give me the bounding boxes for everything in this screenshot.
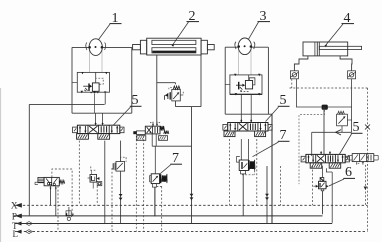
drain dash to L: [111, 168, 113, 232]
wire supply drop to P: [28, 104, 30, 215]
wire V7m down b: [155, 134, 157, 146]
relief valve A bottom dashes: [90, 92, 98, 94]
wire block C to valve 5b left: [240, 94, 242, 122]
relief valve C left cluster: [238, 82, 240, 90]
wire CV1 down: [296, 79, 298, 107]
cylinder C4 body: [303, 42, 348, 56]
orifice plug: [322, 105, 328, 110]
cylinder C4 rod: [319, 46, 361, 49]
cylinder C2 right rod: [207, 45, 214, 50]
svg-text:7: 7: [280, 128, 287, 143]
wire 5b to 7b left: [240, 139, 242, 160]
valve V8 side ticks: [348, 154, 352, 156]
link 5c to V8: [345, 157, 348, 159]
throttle 6 bottom stub box: [321, 189, 324, 191]
solenoid pilot valve coil: [38, 177, 44, 182]
wire block D lower header: [312, 131, 352, 133]
sequence valve C1 drain pot: [97, 182, 102, 186]
svg-text:L: L: [13, 229, 19, 239]
valve V7m top ticks: [152, 122, 154, 126]
svg-text:5: 5: [353, 120, 360, 135]
relief valve C top stub: [248, 75, 250, 81]
relief valve A left cluster: [88, 83, 90, 91]
wire block C to valve 5b right: [250, 94, 252, 122]
wire block C long drop to T: [271, 114, 273, 223]
reducing valve 7a spring cluster: [160, 174, 162, 183]
wire 5b to 7b right: [247, 139, 249, 160]
wire solenoid to X: [50, 186, 52, 206]
leader to motor 1: [94, 24, 110, 46]
wire valve B drop: [175, 101, 177, 107]
cylinder C2 body: [147, 38, 201, 55]
P line test fitting: [68, 207, 70, 216]
flow mark on C2m line: [119, 194, 123, 197]
svg-text:5: 5: [280, 93, 287, 108]
reducing valve 7a bottom box: [152, 184, 156, 188]
solenoid valve enclosure dashes: [52, 169, 72, 216]
block C port arrows: [234, 74, 236, 76]
solenoid valve spring: [59, 180, 64, 183]
bus line L leak: [16, 230, 22, 234]
directional valve 5b port ticks: [240, 119, 242, 122]
check valve C2m pilot dash: [121, 157, 127, 162]
check valve C2m square: [116, 162, 125, 172]
valve V7m right spring cluster: [160, 126, 165, 131]
directional valve 5a port ticks: [95, 122, 97, 125]
directional valve 5c pilot boxes: [310, 163, 322, 168]
wire 7b down to P: [242, 174, 244, 216]
pilot check valve CV1: [290, 71, 298, 79]
solenoid pilot valve body: [44, 177, 59, 185]
svg-text:6: 6: [345, 165, 352, 180]
directional valve 5c side wings: [301, 156, 306, 162]
cylinder C4 left leg: [294, 56, 308, 71]
check arrow on header: [336, 130, 341, 135]
cylinder C2 left rod: [133, 45, 141, 50]
relief valve C right loop: [249, 78, 255, 85]
drain dash V7m solenoid: [135, 136, 137, 232]
directional valve 5b pilot boxes: [224, 131, 235, 137]
leader to motor 3: [245, 22, 259, 46]
wire 5c feed: [323, 107, 325, 154]
relief valve A right dashes: [96, 78, 103, 84]
wire CV2 down: [351, 79, 353, 133]
relief valve block C enclosure: [230, 75, 262, 94]
relief valve B spring: [173, 86, 180, 89]
wire 5c right to comp6: [321, 166, 323, 178]
wire 5c right pilot drop to T: [331, 172, 333, 223]
pilot dash V8 to X: [364, 165, 366, 205]
throttle 6 left arrow: [316, 185, 319, 188]
motor M3: [238, 38, 251, 55]
wire 5a right pilot to T: [104, 141, 106, 224]
directional valve 5c body: [306, 154, 345, 162]
wire long drop to T: [191, 107, 193, 224]
wire valve B feed: [157, 82, 176, 84]
pilot dash C1 down to X: [96, 186, 98, 206]
directional valve 5a pilot boxes: [77, 134, 89, 140]
wire motor3 port A: [238, 48, 240, 75]
scan edge line left: [0, 88, 2, 242]
leader to cylinder 4: [325, 24, 343, 46]
throttle valve 6 square: [319, 181, 327, 189]
reducing valve 7b bottom box: [241, 171, 246, 174]
wire motor3 port B: [250, 48, 252, 75]
manifold block A outline: [72, 46, 132, 48]
svg-text:X: X: [11, 202, 18, 212]
relief valve block A enclosure: [77, 72, 109, 92]
block A left port tick: [72, 81, 77, 83]
wire block B left edge: [156, 55, 158, 125]
wire motor1 port B: [101, 49, 103, 72]
pilot dashed right drop with cross and arrow: [367, 88, 369, 232]
wire solenoid to P: [55, 186, 57, 216]
relief valve A top stub: [95, 72, 97, 83]
relief valve C bottom dashes: [240, 90, 249, 92]
pilot dashed header: [291, 79, 293, 88]
orifice pilot dashes: [299, 110, 325, 184]
pilot dash 5a left to X: [78, 141, 80, 206]
valve V8 port letters: [356, 162, 358, 164]
cylinder C2 right flange: [201, 40, 207, 54]
valve V8 body: [352, 154, 374, 162]
wire 7a up: [154, 146, 156, 174]
port corner 5c to T drop: [326, 168, 332, 172]
pilot dash from V7m left: [143, 136, 145, 231]
relief valve B left marks: [169, 92, 171, 99]
wire 7b side drop to T: [266, 166, 268, 223]
wire block B right edge: [200, 55, 202, 107]
cylinder C2 left flange: [140, 40, 146, 54]
cylinder C2 piston band: [152, 48, 196, 53]
pilot dash 5b right to X: [256, 139, 258, 205]
wire comp6 to P corner: [322, 191, 324, 215]
wire motor1 port A: [89, 49, 91, 72]
wire 5a port up A: [95, 113, 97, 122]
wire V7m header to drop: [152, 145, 191, 147]
valve V7m left box: [137, 131, 146, 135]
reducing valve 7a left bracket: [149, 175, 151, 182]
directional valve 5c port ticks: [320, 151, 322, 154]
wire C2m line: [120, 141, 122, 162]
reducing valve 7b bottom dashes: [242, 174, 255, 176]
throttle 6 right mark: [326, 185, 328, 188]
sequence valve C1 pilot dashes: [90, 167, 92, 171]
drain dash solenoid to L: [57, 186, 59, 232]
cylinder C4 piston: [316, 42, 318, 56]
bus line X pilot: [15, 203, 22, 208]
relief valve B pilot dash: [169, 88, 172, 91]
bus line T tank: [16, 222, 22, 226]
block C bottom with extension: [225, 113, 272, 115]
wire relief A to supply line: [104, 92, 106, 104]
bus line P pressure: [15, 214, 22, 219]
pilot check valve CV2: [348, 71, 356, 79]
flow mark on drop: [190, 194, 194, 197]
sequence valve C1 left tick: [88, 177, 90, 179]
solenoid valve left ticks: [35, 181, 38, 183]
flow mark on 7b drop: [265, 194, 269, 197]
throttle valve 6 head: [320, 178, 324, 182]
pilot dash 5b left to X: [229, 139, 231, 205]
wire 5c left pilot drop to X: [312, 166, 314, 206]
reducing valve 7b spring cluster: [248, 160, 250, 170]
wire V7m down a: [151, 134, 153, 146]
wire inner block A port down: [94, 94, 96, 113]
relief valve B square: [172, 89, 181, 101]
cylinder C4 cap line: [314, 42, 316, 56]
sequence valve C1 bottom stub: [92, 182, 94, 188]
cylinder C4 right leg: [340, 56, 352, 71]
directional valve 5b side wings: [223, 124, 228, 130]
relief valve D spring: [338, 111, 345, 114]
svg-text:5: 5: [132, 93, 139, 108]
reducing valve 7a drain dashes: [157, 185, 162, 187]
wire block B bottom: [176, 106, 202, 108]
relief valve D square: [337, 114, 348, 126]
cylinder C2 inner sleeve: [152, 40, 196, 44]
relief valve B right tick: [180, 94, 183, 96]
wire block D cross line: [296, 106, 352, 108]
block C left port tick: [225, 84, 230, 86]
wire 5c left feed: [311, 132, 313, 156]
sequence valve C1 right arrow: [97, 177, 100, 180]
valve V7m pilot boxes: [137, 136, 146, 141]
block A port arrows: [81, 72, 83, 74]
drain dash right of 7b: [280, 166, 282, 205]
reducing valve 7a square: [151, 174, 159, 184]
reducing valve 7b square: [239, 160, 248, 171]
wire block A supply left: [29, 103, 104, 105]
directional valve 5a side wings: [73, 127, 78, 133]
leader to cylinder 2: [172, 22, 189, 46]
valve V7m body: [145, 126, 160, 134]
reducing valve 7b left bracket: [237, 157, 240, 163]
wire 7a down to P: [154, 187, 156, 216]
directional valve 5b body: [228, 123, 268, 132]
relief valve C square: [245, 81, 252, 89]
wire 5a port up B: [102, 113, 104, 122]
relief valve A square: [92, 83, 99, 91]
directional valve 5a body: [77, 125, 119, 133]
relief valve D tail: [341, 126, 343, 133]
drain dash 7a: [161, 186, 163, 230]
check valve C2m left marks: [112, 163, 114, 169]
sequence valve C1 square: [90, 175, 97, 183]
motor M1: [89, 39, 102, 56]
manifold block C outline: [225, 46, 268, 48]
